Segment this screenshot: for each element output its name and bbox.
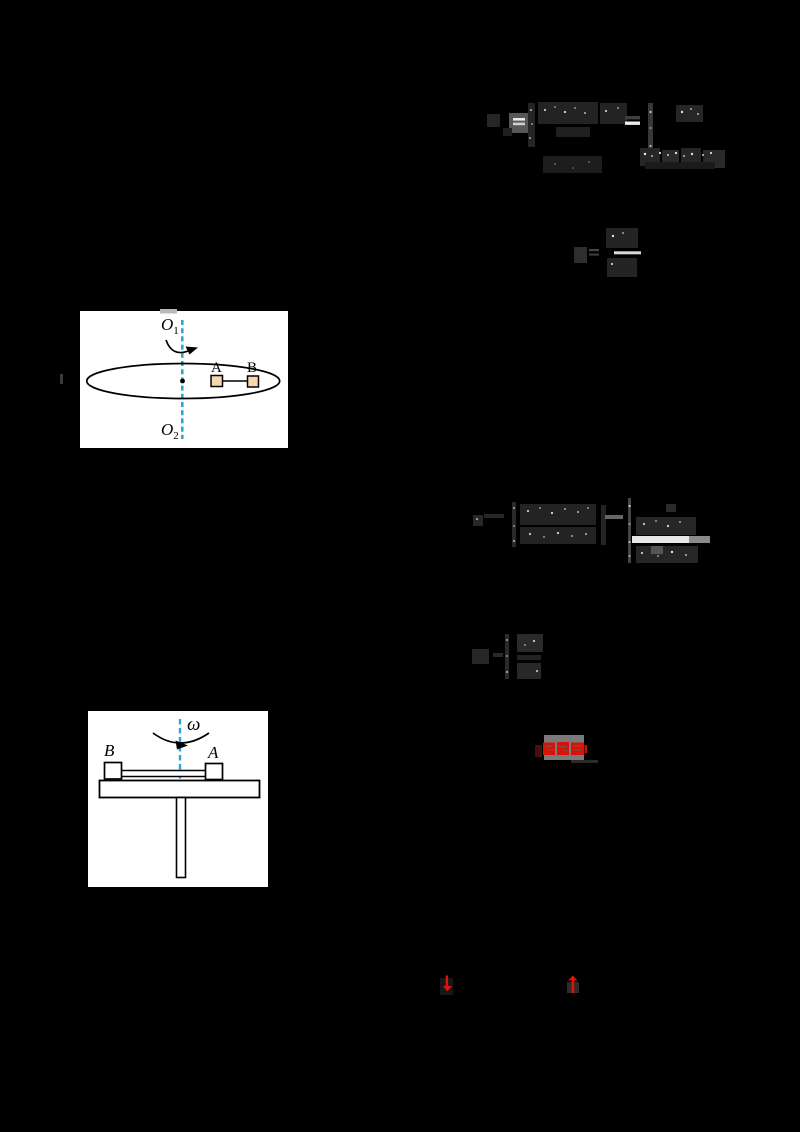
eq1 subscript row	[556, 127, 590, 137]
rotation arc (fig2)	[153, 733, 209, 743]
eq3 gray bar extension	[689, 536, 710, 543]
svg-text:ω: ω	[187, 714, 200, 735]
eq1 tall bracket	[648, 103, 653, 169]
eq2 mu symbol	[574, 247, 587, 263]
svg-text:B: B	[104, 741, 115, 760]
equation 2 fragments	[570, 225, 645, 280]
red glyph 2	[557, 742, 569, 755]
eq2 fraction bar	[614, 251, 641, 254]
red force arrow down	[438, 971, 456, 995]
figure 1: rotating disc with blocks A and B	[80, 309, 288, 448]
svg-text:A: A	[207, 743, 219, 762]
eq2 numerator	[606, 228, 638, 248]
rotation arrowhead (fig2)	[176, 741, 189, 750]
faint tick left of figure 1	[60, 374, 63, 384]
eq4 equals	[493, 653, 503, 657]
equation 4 fragments	[470, 630, 545, 682]
red tail stroke	[585, 745, 588, 753]
block B (fig2)	[105, 763, 122, 780]
eq1 equals highlight box	[509, 113, 528, 133]
table top	[100, 781, 260, 798]
center dot	[180, 379, 185, 384]
rod between blocks	[116, 771, 206, 777]
figure 2 white background	[88, 711, 268, 887]
eq3 right denominator	[636, 546, 698, 563]
svg-text:B: B	[247, 360, 257, 376]
text overlap bar above O1	[160, 309, 177, 314]
disc ellipse	[87, 364, 280, 399]
eq3 opening brace	[512, 502, 516, 547]
eq4 denominator	[517, 663, 541, 679]
figure 1 white background	[80, 311, 288, 448]
eq3 right exponent	[666, 504, 676, 512]
eq1 numerator cluster right	[600, 103, 627, 124]
gray highlight box with red text	[544, 735, 584, 760]
eq4 brace	[505, 634, 509, 679]
block A (fig2)	[206, 764, 223, 780]
block A (fig1)	[211, 376, 223, 387]
axis O1O2 dashed line	[181, 320, 184, 439]
eq1 right numerator	[676, 105, 703, 122]
faint bar below gray box	[571, 760, 598, 763]
eq4 numerator	[517, 634, 543, 652]
figure 2: rotating table with blocks A and B	[88, 711, 268, 887]
eq3 bright fraction bar	[632, 536, 689, 543]
eq3 denominator left	[520, 527, 596, 544]
red glyph 3	[571, 743, 584, 756]
eq3 equals mid gray bar	[605, 515, 623, 519]
eq2 greater-equal	[589, 249, 599, 251]
eq3 tall radical line	[628, 498, 631, 563]
table stem	[177, 798, 186, 878]
connector rod A-B	[217, 380, 252, 382]
eq1 denominator blocks	[640, 148, 660, 166]
eq1 v_P symbol	[487, 114, 500, 127]
equation 3 fragments	[470, 496, 712, 568]
eq1 opening brace	[528, 103, 535, 147]
rotation arrow arc	[166, 340, 188, 353]
eq2 denominator	[607, 258, 637, 277]
eq3 faint fraction bar left	[520, 522, 596, 525]
axis dashed line (fig2)	[179, 719, 181, 780]
red force arrow up	[565, 972, 581, 996]
equation 1 fragments	[485, 98, 730, 173]
eq3 right numerator	[636, 517, 696, 535]
eq3 v1 symbol	[473, 515, 483, 526]
eq1 lower-left faint cluster	[543, 156, 602, 177]
eq4 faint mid bar	[517, 655, 541, 660]
eq3 equals bar left	[484, 514, 504, 518]
eq4 a symbol	[472, 649, 489, 664]
eq1 numerator cluster left	[538, 102, 598, 124]
eq3 numerator left	[520, 504, 596, 522]
red glyph 1	[543, 743, 555, 756]
block B (fig1)	[248, 376, 259, 387]
eq1 denominator faint base	[645, 162, 715, 169]
svg-text:A: A	[211, 360, 222, 376]
red highlighted text glyphs	[542, 740, 588, 757]
eq1 second equals	[625, 116, 640, 119]
eq3 closing brace	[601, 505, 606, 545]
dark red smudge	[535, 745, 542, 757]
